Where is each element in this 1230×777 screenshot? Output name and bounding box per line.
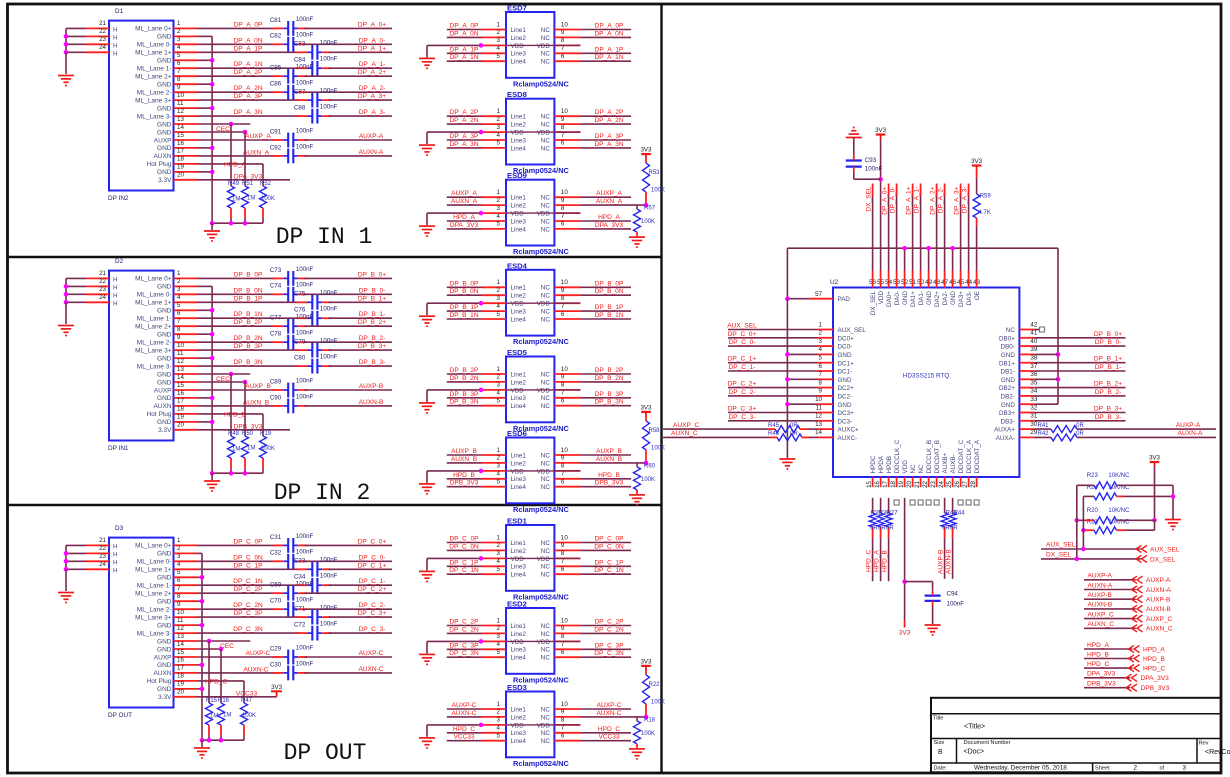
svg-text:5: 5 [497, 649, 501, 656]
ESD9 VDD net crossing wire [506, 212, 580, 214]
capacitor C33 100nF [311, 562, 313, 577]
ESD7 VDD net crossing wire [506, 44, 580, 46]
svg-text:NC: NC [541, 714, 551, 721]
wire net DP_C_3- to U2 pin 12 [728, 420, 818, 422]
wire ESD9 left pin 5 net DPA_3V3 [447, 228, 482, 230]
svg-text:100nF: 100nF [296, 644, 314, 651]
svg-text:Line3: Line3 [511, 309, 527, 316]
svg-text:100nF: 100nF [320, 56, 338, 63]
wire ESD7 right pin 10 net DP_A_0P [580, 29, 631, 31]
wire C69 right [305, 592, 392, 594]
svg-text:Line2: Line2 [511, 460, 527, 467]
svg-text:0R: 0R [886, 526, 894, 532]
svg-text:9: 9 [561, 29, 565, 36]
svg-text:100nF: 100nF [320, 40, 338, 47]
resistor R45 0R [775, 426, 800, 433]
capacitor C78 100nF [287, 335, 289, 350]
svg-text:100nF: 100nF [320, 605, 338, 612]
svg-text:3: 3 [1183, 765, 1187, 772]
svg-text:DP_C_3+: DP_C_3+ [358, 610, 387, 617]
wire C73 right [305, 277, 392, 279]
IC U2 HD3SS215RTQ [833, 288, 1019, 478]
svg-text:U2: U2 [830, 279, 839, 286]
wire net AUX_SEL to U2 pin 1 [728, 329, 818, 331]
svg-text:100nF: 100nF [296, 393, 314, 400]
svg-text:NC: NC [541, 137, 551, 144]
svg-text:3: 3 [497, 550, 501, 557]
svg-text:10: 10 [177, 609, 184, 616]
ESD1 VDD ground [419, 570, 435, 572]
svg-text:DP_A_1+: DP_A_1+ [905, 186, 912, 214]
wire ESD1 right pin 10 net DP_C_0P [580, 542, 631, 544]
svg-text:7: 7 [561, 213, 565, 220]
svg-text:23: 23 [99, 553, 106, 560]
svg-text:R45: R45 [768, 423, 780, 429]
svg-text:21: 21 [99, 537, 106, 544]
svg-text:Wednesday, December 05, 2018: Wednesday, December 05, 2018 [974, 765, 1067, 772]
chevron DPB_3V3 [1126, 684, 1137, 691]
wire ESD9 right pin 6 net DPA_3V3 [580, 228, 631, 230]
svg-text:Rclamp0524/NC: Rclamp0524/NC [513, 247, 570, 256]
svg-text:OE: OE [974, 291, 981, 300]
svg-text:Line2: Line2 [511, 548, 527, 555]
wire net HPD_A stub list [1084, 648, 1132, 650]
svg-text:7: 7 [561, 132, 565, 139]
svg-text:4: 4 [497, 213, 501, 220]
svg-text:C90: C90 [270, 394, 282, 401]
wire ESD4 right pin 9 net DP_B_0N [580, 294, 631, 296]
svg-text:AUXN-A: AUXN-A [1178, 430, 1203, 437]
ESD7 VDD wire to ground [427, 44, 482, 46]
svg-text:H: H [113, 27, 118, 34]
svg-text:C82: C82 [270, 33, 282, 40]
svg-text:DA2-: DA2- [942, 291, 949, 305]
wire net DP_C_1- to U2 pin 6 [728, 370, 818, 372]
svg-text:C88: C88 [294, 105, 306, 112]
svg-text:R15: R15 [206, 698, 218, 704]
svg-text:10K/NC: 10K/NC [1108, 473, 1130, 479]
3V3 power for R59 [972, 164, 982, 166]
wire net AUXN_C stub list [1084, 627, 1136, 629]
svg-text:DP_A_1+: DP_A_1+ [358, 45, 386, 52]
svg-text:<Doc>: <Doc> [964, 749, 985, 756]
svg-text:1: 1 [497, 534, 501, 541]
wire ESD2 right pin 9 net DP_C_2N [580, 632, 631, 634]
svg-text:ESD6: ESD6 [507, 429, 527, 438]
wire ESD3 right pin 9 net AUXN-C [580, 716, 646, 718]
svg-text:AUXN_C: AUXN_C [671, 430, 698, 437]
svg-text:HPDC: HPDC [870, 455, 877, 473]
3V3 power for R58 [641, 411, 651, 413]
ESD device ESD7 [506, 12, 554, 78]
svg-text:41: 41 [1030, 330, 1037, 337]
svg-text:ML_Lane 0-: ML_Lane 0- [137, 559, 172, 566]
wire C87 right [329, 99, 392, 101]
svg-text:H: H [113, 301, 118, 308]
svg-text:3V3: 3V3 [640, 404, 652, 411]
wire net AUXN-B stub list [1084, 608, 1136, 610]
svg-text:DP_B_3-: DP_B_3- [359, 359, 386, 366]
svg-text:R53: R53 [649, 170, 661, 176]
svg-text:Rclamp0524/NC: Rclamp0524/NC [513, 505, 570, 514]
wire D3 pin 9 to capacitor C70 [198, 608, 277, 610]
svg-text:DP_B_3+: DP_B_3+ [358, 343, 386, 350]
svg-text:R41: R41 [1037, 423, 1049, 429]
svg-text:3: 3 [497, 633, 501, 640]
wire net DPB_3V3 stub list [1084, 687, 1130, 689]
capacitor C29 100nF [287, 650, 289, 665]
svg-text:DP_B_2-: DP_B_2- [359, 335, 386, 342]
svg-text:100nF: 100nF [320, 290, 338, 297]
net label HPD_C + wire pin18 [198, 680, 245, 682]
pulldown bottom rail [212, 472, 263, 474]
svg-text:C86: C86 [270, 81, 282, 88]
svg-text:21: 21 [99, 20, 106, 27]
ESD device ESD2 [506, 608, 554, 674]
svg-text:10: 10 [561, 189, 568, 196]
svg-text:DP_B_2P: DP_B_2P [234, 319, 263, 326]
wire C70 right [305, 608, 392, 610]
chevron HPD_A [1129, 645, 1140, 652]
svg-text:VDD: VDD [511, 211, 525, 218]
wire net DP_B_3+ from U2 [1034, 412, 1125, 414]
svg-text:DC2+: DC2+ [838, 385, 855, 392]
ESD7 VDD ground [419, 57, 435, 59]
svg-text:AUXP_A: AUXP_A [596, 190, 622, 197]
svg-text:11: 11 [177, 100, 184, 107]
capacitor C81 100nF [287, 21, 289, 36]
svg-text:DPB_3V3: DPB_3V3 [234, 423, 263, 430]
section ground [201, 740, 203, 747]
svg-text:R51: R51 [242, 181, 254, 187]
svg-text:HPD_A: HPD_A [873, 550, 880, 572]
svg-text:DP_A_1N: DP_A_1N [233, 61, 262, 68]
svg-text:AUXN-B: AUXN-B [1146, 606, 1171, 613]
svg-text:Line3: Line3 [511, 51, 527, 58]
svg-text:DP_A_2P: DP_A_2P [234, 69, 263, 76]
wire D3 pin 17 to capacitor C30 [198, 672, 277, 674]
svg-text:C89: C89 [270, 378, 282, 385]
wire D2 pin 15 to capacitor C89 [198, 389, 277, 391]
wire ESD1 right pin 7 net DP_C_1P [580, 565, 631, 567]
svg-text:7: 7 [561, 303, 565, 310]
svg-text:16: 16 [177, 140, 184, 147]
svg-text:4: 4 [497, 471, 501, 478]
svg-text:DP_C_0N: DP_C_0N [233, 554, 263, 561]
svg-text:C93: C93 [865, 157, 877, 164]
svg-text:C83: C83 [294, 41, 306, 48]
svg-text:Sheet: Sheet [1095, 766, 1110, 772]
svg-text:GND: GND [157, 82, 172, 89]
wire ESD9 right pin 9 net AUXN_A [580, 204, 646, 206]
svg-text:9: 9 [561, 287, 565, 294]
svg-text:4: 4 [819, 346, 823, 353]
svg-text:DP_C_0-: DP_C_0- [729, 339, 756, 346]
svg-text:AUX_SEL: AUX_SEL [727, 323, 757, 330]
resistor R52 100K vertical [262, 174, 264, 186]
svg-text:1: 1 [497, 21, 501, 28]
svg-text:100nF: 100nF [320, 354, 338, 361]
wire C82 right [305, 43, 392, 45]
svg-text:R22: R22 [649, 682, 661, 688]
svg-text:DP_A_0+: DP_A_0+ [881, 186, 888, 214]
capacitor C79 100nF [311, 343, 313, 358]
svg-text:9: 9 [561, 455, 565, 462]
svg-text:DP_C_1P: DP_C_1P [449, 559, 479, 566]
capacitor C75 100nF [311, 295, 313, 310]
svg-text:DP_C_0N: DP_C_0N [594, 543, 624, 550]
svg-text:14: 14 [177, 641, 184, 648]
svg-text:10: 10 [177, 342, 184, 349]
svg-text:DP_C_1N: DP_C_1N [233, 578, 263, 585]
wire ESD8 left pin 5 net DP_A_3N [447, 147, 482, 149]
svg-text:34: 34 [1030, 388, 1037, 395]
resistor R51 1M vertical [244, 132, 246, 186]
svg-text:Line4: Line4 [511, 316, 527, 323]
svg-text:AUXP_C: AUXP_C [1146, 616, 1172, 623]
wire D2 pin 10 to capacitor C79 [198, 349, 301, 351]
svg-text:5: 5 [177, 569, 181, 576]
svg-text:14: 14 [177, 124, 184, 131]
svg-text:4: 4 [497, 558, 501, 565]
svg-text:100nF: 100nF [320, 306, 338, 313]
resistor R15 1M vertical [208, 641, 210, 703]
svg-text:DP_C_3+: DP_C_3+ [728, 406, 757, 413]
svg-text:Line3: Line3 [511, 647, 527, 654]
svg-text:AUX_SEL: AUX_SEL [1150, 547, 1180, 554]
svg-text:GND: GND [157, 284, 172, 291]
svg-text:7: 7 [561, 390, 565, 397]
svg-text:39: 39 [1030, 346, 1037, 353]
svg-text:AUXP-C: AUXP-C [597, 702, 622, 709]
ESD6 VDD ground [419, 483, 435, 485]
svg-text:15: 15 [177, 649, 184, 656]
svg-text:Line3: Line3 [511, 476, 527, 483]
svg-text:100K: 100K [651, 445, 665, 451]
svg-text:GND: GND [838, 352, 852, 359]
svg-text:3: 3 [497, 37, 501, 44]
svg-text:DP IN1: DP IN1 [108, 445, 129, 452]
svg-text:1M: 1M [247, 196, 255, 202]
resistor R59 4.7K [976, 170, 978, 178]
svg-text:AUXP-A: AUXP-A [1088, 573, 1113, 580]
wire ESD6 left pin 4 net HPD_B [447, 478, 482, 480]
wire net DP_B_2+ from U2 [1034, 387, 1125, 389]
svg-text:DP_B_0P: DP_B_0P [234, 271, 263, 278]
svg-text:Rclamp0524/NC: Rclamp0524/NC [513, 759, 570, 768]
svg-text:1M: 1M [223, 713, 231, 719]
D3 GND pin 19 wire [198, 688, 203, 690]
ground for R60 [629, 494, 645, 496]
svg-text:1: 1 [819, 321, 823, 328]
svg-text:DP_B_1+: DP_B_1+ [1094, 356, 1122, 363]
svg-text:Line3: Line3 [511, 137, 527, 144]
svg-text:100nF: 100nF [947, 601, 965, 608]
wire C79 right [329, 349, 392, 351]
resistor R19 100K vertical [262, 424, 264, 436]
wire ESD8 right pin 6 net DP_A_3N [580, 147, 631, 149]
svg-text:AUXN_B: AUXN_B [243, 400, 270, 407]
svg-text:17: 17 [177, 398, 184, 405]
svg-text:6: 6 [819, 363, 823, 370]
svg-text:NC: NC [541, 35, 551, 42]
svg-text:DPB_3V3: DPB_3V3 [1087, 681, 1116, 688]
svg-text:36: 36 [1030, 371, 1037, 378]
svg-text:5: 5 [497, 53, 501, 60]
wire C29 right [305, 656, 392, 658]
svg-text:Line2: Line2 [511, 714, 527, 721]
svg-text:VCC33: VCC33 [236, 690, 257, 697]
svg-text:DP_B_2N: DP_B_2N [449, 375, 478, 382]
svg-text:C77: C77 [270, 315, 282, 322]
svg-text:DP_B_0+: DP_B_0+ [358, 271, 386, 278]
svg-text:2: 2 [497, 374, 501, 381]
svg-text:DC2-: DC2- [838, 394, 853, 401]
wire C30 right [305, 672, 392, 674]
wire net AUXN-B down [952, 538, 954, 579]
svg-text:DP_C_2N: DP_C_2N [449, 626, 479, 633]
svg-text:23: 23 [99, 286, 106, 293]
svg-text:Hot Plug: Hot Plug [147, 678, 172, 685]
svg-text:100nF: 100nF [320, 557, 338, 564]
svg-text:100nF: 100nF [320, 88, 338, 95]
svg-text:40: 40 [1030, 338, 1037, 345]
pulldown bottom rail [202, 739, 244, 741]
svg-text:DX_SEL: DX_SEL [865, 186, 872, 211]
svg-text:AUXN-B: AUXN-B [359, 399, 384, 406]
wire C31 right [305, 544, 392, 546]
svg-text:1: 1 [497, 366, 501, 373]
svg-text:3V3: 3V3 [640, 658, 652, 665]
svg-text:AUXN-A: AUXN-A [1146, 587, 1171, 594]
svg-text:GND: GND [157, 646, 172, 653]
ESD6 VDD net crossing wire [506, 470, 580, 472]
svg-text:2: 2 [497, 625, 501, 632]
resistor R58 100K pullup [645, 416, 647, 421]
wire net DP_B_2- from U2 [1034, 395, 1125, 397]
chevron HPD_B [1129, 655, 1140, 662]
svg-text:8: 8 [819, 379, 823, 386]
wire D2 pin 17 to capacitor C90 [198, 405, 277, 407]
wire U2 left GND pin row 10 [787, 403, 818, 405]
svg-text:C34: C34 [294, 574, 306, 581]
svg-text:VDD: VDD [511, 43, 525, 50]
svg-text:8: 8 [561, 295, 565, 302]
capacitor C91 100nF [287, 133, 289, 148]
resistor R21 zigzag row2 [1094, 527, 1117, 534]
wire C78 right [305, 341, 392, 343]
svg-text:7: 7 [177, 318, 181, 325]
svg-text:5: 5 [177, 302, 181, 309]
svg-text:100nF: 100nF [296, 32, 314, 39]
svg-text:100K: 100K [261, 196, 275, 202]
svg-text:<RevCode: <RevCode [1205, 749, 1230, 756]
svg-text:HPD_B: HPD_B [453, 472, 475, 479]
svg-text:5: 5 [497, 733, 501, 740]
svg-text:1: 1 [177, 537, 181, 544]
svg-text:4: 4 [497, 45, 501, 52]
svg-text:AUXP-B: AUXP-B [359, 383, 384, 390]
wire ESD2 right pin 10 net DP_C_2P [580, 625, 631, 627]
svg-text:DDCDAT_A: DDCDAT_A [974, 439, 981, 473]
svg-text:100nF: 100nF [320, 104, 338, 111]
svg-text:2: 2 [497, 29, 501, 36]
ESD2 VDD net crossing wire [506, 640, 580, 642]
svg-text:1M: 1M [210, 714, 218, 720]
capacitor C89 100nF [287, 383, 289, 398]
svg-text:NC: NC [541, 122, 551, 129]
svg-text:Rev: Rev [1199, 741, 1209, 747]
svg-text:DB2-: DB2- [1001, 394, 1015, 401]
wire ESD1 left pin 4 net DP_C_1P [447, 565, 482, 567]
D2 shield ground [58, 325, 74, 327]
svg-text:13: 13 [177, 116, 184, 123]
svg-text:32: 32 [1030, 404, 1037, 411]
svg-text:DX_SEL: DX_SEL [870, 291, 877, 316]
svg-text:DP_A_3P: DP_A_3P [450, 133, 479, 140]
svg-text:C80: C80 [294, 355, 306, 362]
wire ESD3 left pin 4 net HPD_C [447, 732, 482, 734]
wire ESD8 right pin 10 net DP_A_2P [580, 115, 631, 117]
svg-text:23: 23 [99, 36, 106, 43]
wire D1 pin 12 to capacitor C88 [198, 115, 301, 117]
wire net DP_A_0- to U2 top [896, 184, 898, 197]
svg-text:DP_A_0-: DP_A_0- [889, 187, 896, 214]
svg-text:NC: NC [541, 484, 551, 491]
svg-text:DP_A_3-: DP_A_3- [359, 109, 386, 116]
wire 3V3 down to R20 row [1154, 467, 1156, 521]
vertical R24 left leg to DX_SEL [1076, 485, 1078, 559]
svg-text:DP_A_2+: DP_A_2+ [358, 69, 386, 76]
svg-text:Line3: Line3 [511, 730, 527, 737]
ESD device ESD4 [506, 270, 554, 336]
svg-text:GND: GND [157, 169, 172, 176]
resistor R18 100K pulldown [636, 717, 638, 721]
svg-text:AUX_SEL: AUX_SEL [838, 327, 867, 334]
svg-text:DP_C_3N: DP_C_3N [594, 650, 624, 657]
ESD4 VDD net crossing wire [506, 302, 580, 304]
svg-text:Line4: Line4 [511, 145, 527, 152]
svg-text:H: H [113, 293, 118, 300]
svg-text:C73: C73 [270, 267, 282, 274]
U2 pin 27 no-connect square [966, 500, 971, 505]
svg-text:C33: C33 [294, 558, 306, 565]
wire ESD2 left pin 2 net DP_C_2N [447, 632, 482, 634]
wire AUXN-A long right [1077, 436, 1216, 438]
capacitor C92 100nF [287, 149, 289, 164]
svg-text:VDD: VDD [511, 639, 525, 646]
D3 GND pin 2 wire [198, 552, 203, 554]
resistor R16 1M vertical [220, 649, 222, 703]
svg-text:AUXP-B: AUXP-B [1146, 597, 1171, 604]
svg-text:NC: NC [541, 114, 551, 121]
svg-text:Line1: Line1 [511, 706, 527, 713]
GND loop left vertical + PAD wire [786, 248, 788, 299]
svg-text:HPD_B: HPD_B [598, 472, 620, 479]
svg-text:AUXN-C: AUXN-C [243, 667, 268, 674]
svg-text:GND: GND [950, 291, 957, 305]
svg-text:NC: NC [541, 51, 551, 58]
capacitor C82 100nF [287, 37, 289, 52]
svg-text:ESD8: ESD8 [507, 90, 527, 99]
svg-text:AUXN: AUXN [153, 153, 171, 160]
svg-text:100K: 100K [641, 219, 655, 225]
svg-text:24: 24 [99, 294, 106, 301]
svg-text:AUXN_A: AUXN_A [451, 198, 478, 205]
svg-text:GND: GND [1001, 377, 1015, 384]
capacitor C32 100nF [287, 554, 289, 569]
resistor R35 0R on HPD_C [872, 498, 874, 513]
